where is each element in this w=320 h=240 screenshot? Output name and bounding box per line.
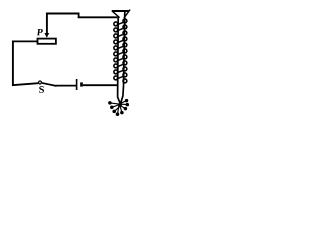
plug arrowhead into key P [44, 33, 49, 38]
screw shank: left edge [118, 17, 121, 103]
screw head: left bevel [112, 11, 119, 17]
battery cell: long plate [76, 79, 78, 90]
screw tip point [119, 101, 122, 105]
wire: step down jog [78, 13, 80, 18]
label P [37, 29, 43, 35]
coil winding around screw shank [114, 19, 127, 83]
battery cell: short thick plate [80, 82, 83, 86]
label S [39, 86, 44, 93]
wire: top horizontal lower segment to screw head [78, 16, 118, 18]
attracted pins at screw tip [109, 99, 129, 115]
wire: switch to battery [56, 85, 77, 87]
wire: bottom left to switch [12, 83, 38, 85]
wire: top horizontal upper segment [46, 13, 79, 15]
plug key P: body box [38, 39, 56, 44]
screw shank: right edge [121, 12, 125, 104]
wire: from key P left to circuit left side [12, 40, 37, 42]
wire: vertical drop to plug arrow [46, 13, 48, 34]
wire: battery to screw coil [83, 84, 118, 86]
switch S: blade [42, 83, 57, 86]
screw head: flat top [112, 10, 129, 12]
wire: left vertical side [12, 41, 14, 86]
switch S: pivot circle [39, 81, 42, 84]
screw head: right bevel [124, 10, 130, 19]
